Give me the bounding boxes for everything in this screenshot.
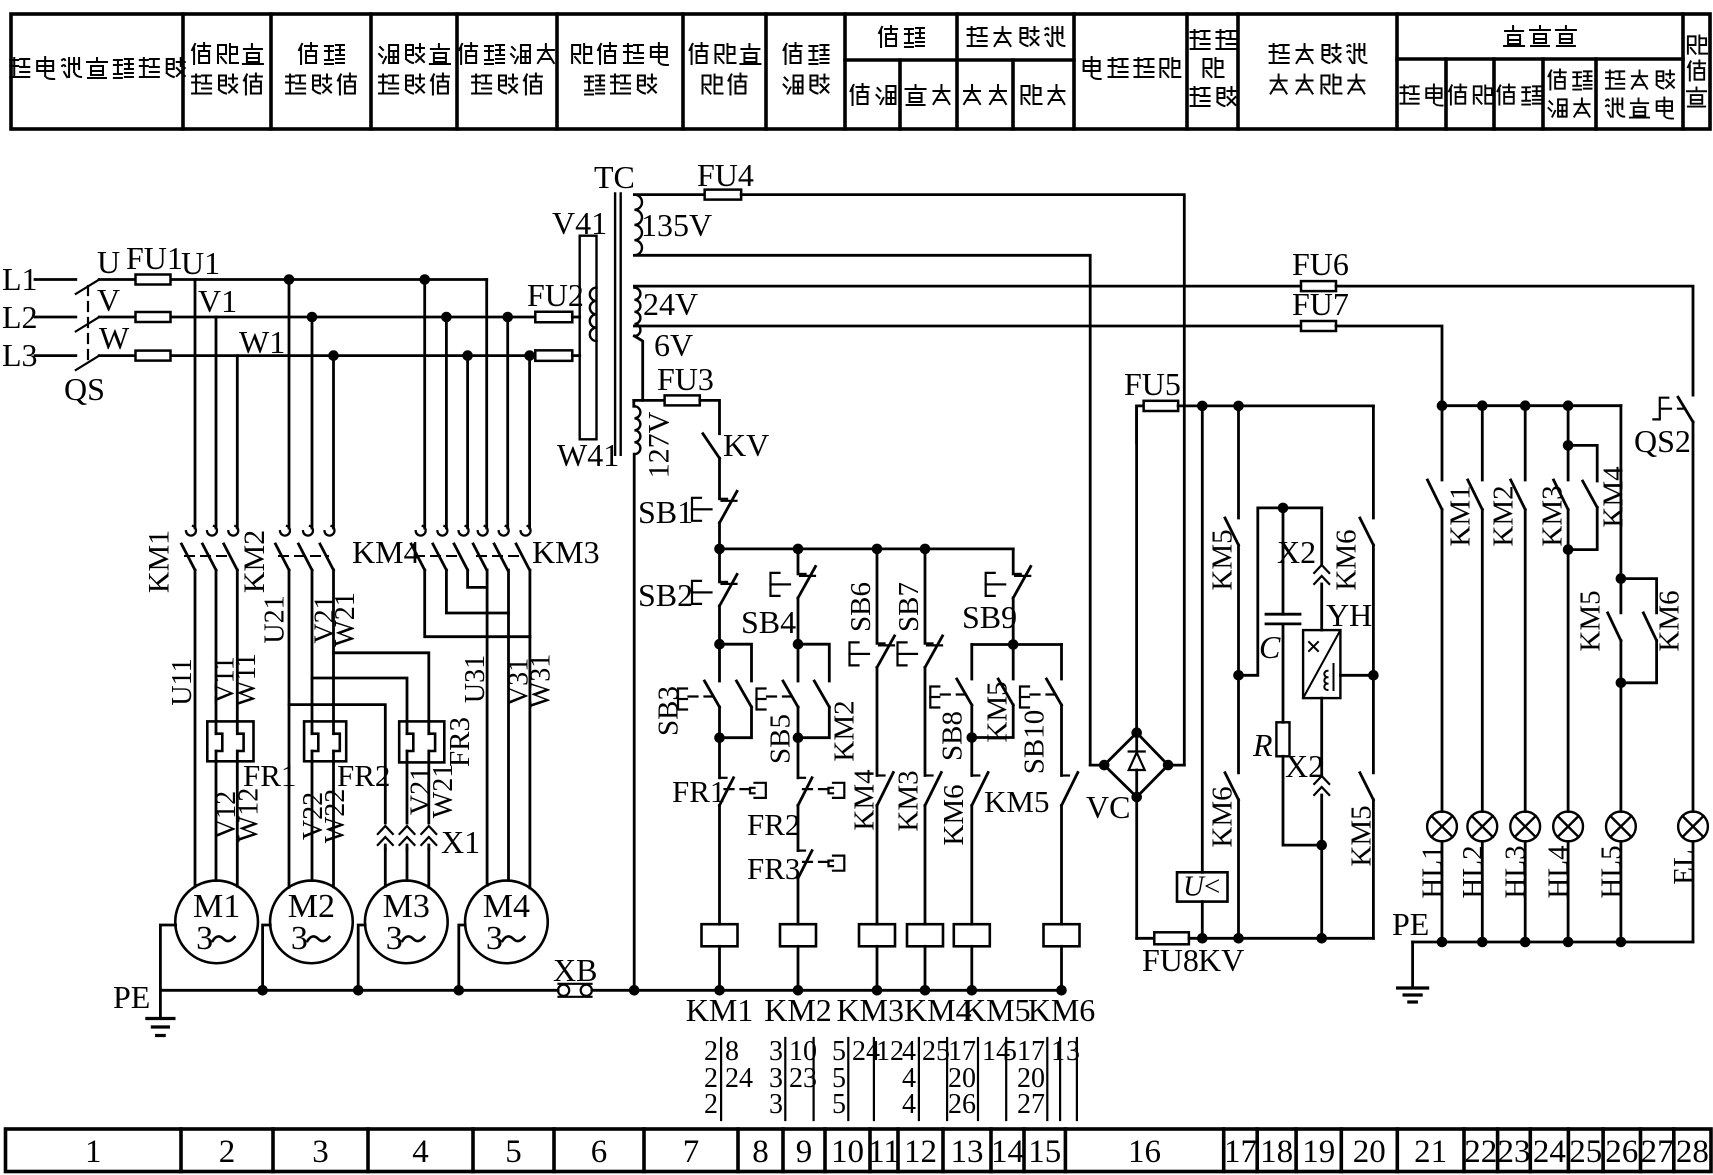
PE bonding M3 [358, 925, 365, 990]
svg-text:KV: KV [723, 427, 769, 463]
svg-text:KM5: KM5 [1346, 805, 1378, 866]
incoming supply line L3 [35, 354, 76, 357]
interlock contact KM3 [925, 774, 933, 776]
svg-text:KM2: KM2 [829, 700, 861, 761]
svg-text:KM3: KM3 [1537, 485, 1569, 546]
svg-text:KM3: KM3 [893, 770, 925, 831]
interlock contact KM6 [970, 738, 973, 776]
svg-text:U11: U11 [167, 658, 198, 705]
control feed rail [720, 548, 1014, 551]
chuck electromagnet YH [1303, 630, 1340, 698]
svg-text:TC: TC [594, 159, 635, 195]
contact KM6 to KV rail [1237, 675, 1240, 773]
wires FR2 to motor M2 [311, 751, 314, 881]
tap V-phase to FR3 [312, 678, 407, 734]
wire U branch KM2 [288, 280, 291, 529]
svg-text:FU1: FU1 [126, 240, 183, 276]
svg-text:SB3: SB3 [653, 686, 685, 736]
svg-text:FU6: FU6 [1292, 246, 1349, 282]
interlock contact KM4 [877, 774, 885, 776]
svg-text:EL: EL [1668, 849, 1700, 884]
svg-text:7: 7 [683, 1134, 700, 1170]
thermal relay FR3 [399, 721, 444, 762]
start button SB5 [797, 644, 800, 681]
coil KM1 [702, 924, 738, 946]
svg-text:KM3: KM3 [532, 534, 600, 570]
svg-text:V41: V41 [552, 205, 607, 241]
svg-text:KM4: KM4 [1598, 466, 1630, 528]
svg-text:W: W [99, 320, 130, 356]
svg-text:3: 3 [312, 1134, 329, 1170]
TC 24V/6V secondary winding [634, 288, 640, 336]
lamp feed rail [1442, 404, 1621, 407]
parallel contact KM4 [1568, 445, 1597, 481]
svg-text:U: U [97, 244, 120, 280]
fuse FU4 [705, 190, 742, 200]
bus L2 after switch [99, 316, 535, 319]
svg-text:SB6: SB6 [845, 582, 877, 632]
rectifier bridge VC [1104, 733, 1168, 797]
svg-text:SB10: SB10 [1019, 710, 1051, 774]
PE rail [160, 989, 558, 992]
svg-text:FU8: FU8 [1142, 942, 1199, 978]
wire bridge top to FU5 [1135, 406, 1138, 733]
svg-text:3: 3 [291, 920, 308, 957]
wire YH right terminal [1340, 674, 1373, 677]
svg-text:KM2: KM2 [238, 530, 271, 593]
svg-text:HL5: HL5 [1596, 845, 1628, 898]
svg-text:XB: XB [553, 952, 597, 988]
motor M3 [365, 881, 448, 964]
stop button SB9 [1012, 549, 1015, 574]
TC 127V control winding [634, 406, 640, 454]
charge button SB8 [957, 679, 972, 705]
svg-text:YH: YH [1326, 597, 1372, 633]
lamp branch KM3/KM4 / HL4 [1567, 406, 1570, 480]
lighting switch QS2 [1678, 397, 1693, 422]
svg-text:X2: X2 [1285, 748, 1324, 784]
svg-text:3: 3 [486, 920, 503, 957]
wire FU4 to rectifier right node [741, 195, 1184, 766]
svg-text:6V: 6V [654, 327, 693, 363]
svg-text:L3: L3 [2, 337, 38, 373]
wire V1 branch [215, 317, 218, 528]
svg-text:R: R [1252, 727, 1273, 763]
wires FR3 to connector X1 [406, 751, 409, 823]
PE bonding M4 [459, 925, 465, 990]
svg-text:V1: V1 [198, 283, 237, 319]
svg-text:HL3: HL3 [1500, 845, 1532, 898]
stop button SB1 [720, 498, 728, 500]
svg-text:9: 9 [796, 1134, 813, 1170]
svg-text:QS2: QS2 [1634, 423, 1691, 459]
bus L1 after switch [99, 278, 487, 281]
svg-text:24V: 24V [643, 286, 698, 322]
svg-text:KM6: KM6 [1207, 786, 1239, 847]
coil KM2 [780, 924, 816, 946]
svg-text:17: 17 [1224, 1134, 1257, 1170]
chuck branch: contact KM5 [1237, 406, 1240, 518]
svg-text:2: 2 [704, 1089, 718, 1120]
svg-text:W11: W11 [231, 653, 262, 706]
stop button SB2 [720, 581, 728, 583]
coil KM6 [1044, 924, 1080, 946]
svg-text:HL2: HL2 [1457, 845, 1489, 898]
svg-text:W1: W1 [239, 324, 285, 360]
svg-text:W21: W21 [330, 592, 361, 646]
svg-text:4: 4 [902, 1089, 916, 1120]
button SB7 [924, 549, 927, 644]
stop button SB4 [797, 549, 800, 574]
tap W-phase to FR3 [334, 653, 429, 734]
svg-text:W31: W31 [526, 654, 557, 708]
tap U-phase to X1 [289, 705, 385, 823]
svg-text:25: 25 [1569, 1134, 1602, 1170]
wires FR1 to motor M1 [215, 751, 218, 881]
svg-text:KM3: KM3 [836, 992, 904, 1028]
svg-text:21: 21 [1414, 1134, 1447, 1170]
wires X1 to motor M3 [384, 849, 387, 886]
wires & components group [35, 190, 1708, 1036]
svg-text:U31: U31 [460, 655, 491, 703]
self-hold contact KM5 [1012, 645, 1015, 680]
svg-text:14: 14 [991, 1134, 1024, 1170]
incoming supply line L2 [35, 316, 76, 319]
incoming supply line L1 [35, 278, 76, 281]
self-hold contact KM2 [798, 644, 829, 681]
node dots on buses [284, 274, 295, 285]
wire 127V top through FU3 [634, 399, 665, 402]
wire bridge right to FU4 rail [1168, 764, 1184, 767]
border frame & header table [11, 14, 1710, 129]
svg-text:13: 13 [951, 1134, 984, 1170]
self-hold contact KM1 [720, 644, 752, 681]
control common rail [592, 989, 1063, 992]
svg-text:12: 12 [876, 1036, 904, 1067]
svg-text:FU3: FU3 [657, 361, 714, 397]
svg-text:U<: U< [1183, 871, 1220, 903]
svg-text:KM1: KM1 [686, 992, 754, 1028]
svg-text:2: 2 [219, 1134, 236, 1170]
svg-text:SB8: SB8 [937, 711, 969, 761]
wire bridge left to 135V rail [1090, 764, 1104, 767]
lamp EL branch [1692, 422, 1695, 812]
thermal contact FR2 [797, 738, 800, 778]
svg-text:X1: X1 [441, 824, 480, 860]
svg-text:16: 16 [1128, 1134, 1161, 1170]
svg-text:C: C [1259, 629, 1281, 665]
svg-text:10: 10 [831, 1134, 864, 1170]
svg-text:KM4: KM4 [904, 992, 972, 1028]
svg-text:6: 6 [591, 1134, 608, 1170]
wires KM2 outputs with taps to coolant pump [288, 570, 291, 887]
svg-text:24: 24 [725, 1063, 753, 1094]
PE bonding M2 [263, 925, 271, 990]
wire U1 branch [194, 280, 197, 529]
svg-text:KM6: KM6 [938, 784, 970, 845]
KV coil rail with fuse FU8 [1135, 797, 1138, 938]
svg-text:U21: U21 [260, 595, 291, 643]
svg-text:FR3: FR3 [444, 717, 476, 767]
contactor KM3 main contacts [478, 526, 488, 536]
6V end wire to FU3 node [634, 336, 642, 400]
svg-text:SB7: SB7 [893, 582, 925, 632]
lamp branch KM5/KM6 / HL5 [1620, 406, 1623, 613]
header labels [10, 58, 29, 77]
svg-text:27: 27 [1017, 1089, 1045, 1120]
svg-text:26: 26 [1605, 1134, 1638, 1170]
svg-text:L1: L1 [2, 261, 38, 297]
svg-text:3: 3 [386, 920, 403, 957]
svg-text:KM6: KM6 [1654, 590, 1686, 651]
wire W branch KM2 [332, 356, 335, 528]
svg-text:W21: W21 [428, 764, 459, 818]
phase-swap crossover wiring [425, 570, 530, 637]
svg-text:18: 18 [1260, 1134, 1293, 1170]
resistor R [1282, 624, 1285, 722]
ground symbol PE [159, 990, 162, 1018]
coil KM4 [907, 924, 943, 946]
svg-text:W41: W41 [557, 437, 619, 473]
connector X2 upper [1320, 508, 1323, 565]
svg-text:3: 3 [769, 1089, 783, 1120]
terminal numbers under coils [704, 1036, 1065, 1120]
fuse FU6 [1301, 281, 1336, 291]
svg-text:U1: U1 [181, 245, 220, 281]
svg-text:25: 25 [922, 1036, 950, 1067]
parallel contact KM6 [1621, 579, 1657, 613]
svg-text:11: 11 [868, 1134, 900, 1170]
svg-text:KM1: KM1 [1445, 485, 1477, 546]
svg-text:5: 5 [832, 1089, 846, 1120]
fuse FU5 [1137, 406, 1144, 443]
svg-text:SB1: SB1 [638, 494, 693, 530]
svg-text:FU4: FU4 [697, 157, 754, 193]
svg-text:KM5: KM5 [982, 681, 1014, 742]
svg-text:KM2: KM2 [764, 992, 832, 1028]
svg-text:127V: 127V [643, 411, 676, 478]
svg-text:3: 3 [1066, 1036, 1080, 1067]
motor M1 [175, 881, 258, 964]
coil KM5 [954, 924, 990, 946]
svg-text:SB2: SB2 [638, 577, 693, 613]
TC primary winding V41-W41 [580, 236, 597, 440]
24V top terminal to FU6 and QS2 [634, 285, 1301, 288]
fuse FU1 (three fuses) [136, 275, 171, 285]
motor M4 [465, 881, 548, 964]
contactor KM2 main contacts [280, 526, 290, 536]
svg-text:KM5: KM5 [1575, 590, 1607, 651]
svg-text:QS: QS [64, 371, 105, 407]
main switch QS [76, 280, 99, 294]
svg-text:135V: 135V [641, 207, 712, 243]
svg-text:8: 8 [752, 1134, 769, 1170]
svg-text:26: 26 [948, 1089, 976, 1120]
svg-text:FU7: FU7 [1292, 286, 1349, 322]
svg-text:HL1: HL1 [1417, 845, 1449, 898]
svg-text:FU2: FU2 [527, 277, 584, 313]
svg-text:12: 12 [904, 1134, 937, 1170]
svg-text:KM5: KM5 [963, 992, 1031, 1028]
svg-text:V: V [97, 282, 120, 318]
thermal contact FR3 [797, 805, 800, 850]
fuse FU7 [1301, 321, 1336, 331]
connector X1 (three poles) [378, 826, 393, 834]
svg-text:KM6: KM6 [1331, 529, 1363, 590]
motor M2 [270, 881, 353, 964]
svg-text:KM5: KM5 [984, 784, 1049, 819]
svg-text:W12: W12 [234, 788, 265, 842]
wire V branch KM2 [311, 317, 314, 528]
fuse FU3 [665, 395, 700, 405]
svg-text:20: 20 [1353, 1134, 1386, 1170]
contactor KM1 main contacts [186, 526, 196, 536]
wire V31 [507, 570, 510, 613]
svg-text:4: 4 [412, 1134, 429, 1170]
coil KM3 [859, 924, 895, 946]
svg-text:FR1: FR1 [243, 758, 296, 793]
capacitor frame wire [1239, 508, 1322, 675]
svg-text:3: 3 [196, 920, 213, 957]
bus L3 after switch [99, 354, 535, 357]
svg-text:FR2: FR2 [747, 807, 800, 842]
svg-text:28: 28 [1676, 1134, 1709, 1170]
bottom column-number table [6, 1129, 1712, 1172]
svg-text:SB5: SB5 [765, 714, 797, 764]
wires to KM4 contacts [423, 280, 426, 529]
svg-text:FR3: FR3 [747, 851, 800, 886]
svg-text:15: 15 [1028, 1134, 1061, 1170]
lamp branch KM1 / HL1 [1441, 406, 1444, 480]
svg-text:W22: W22 [320, 789, 351, 843]
svg-text:L2: L2 [2, 299, 38, 335]
undervoltage relay KV coil (U<) [1177, 872, 1228, 901]
svg-text:FR2: FR2 [337, 758, 390, 793]
capacitor C [1282, 508, 1285, 614]
lamp branch KM3 / HL3 [1524, 406, 1527, 480]
svg-text:KM1: KM1 [143, 530, 176, 593]
svg-text:SB9: SB9 [962, 599, 1017, 635]
motor frame bonding M1 [160, 925, 175, 990]
svg-text:5: 5 [505, 1134, 522, 1170]
svg-text:KM2: KM2 [1488, 485, 1520, 546]
removable link XB [558, 985, 569, 996]
svg-text:KM5: KM5 [1207, 529, 1239, 590]
svg-text:1: 1 [1051, 1036, 1065, 1067]
TC 135V secondary winding [634, 195, 642, 256]
24V tap terminal to FU7 and lamps [634, 325, 1301, 328]
wire to undervoltage relay [1201, 406, 1204, 872]
svg-text:KM6: KM6 [1028, 992, 1096, 1028]
left control rail from 127V bottom [633, 454, 636, 990]
svg-text:1: 1 [85, 1134, 102, 1170]
svg-text:PE: PE [113, 979, 150, 1015]
wire W1 branch [236, 356, 239, 528]
svg-text:FR1: FR1 [672, 774, 725, 809]
lamp branch KM2 / HL2 [1481, 406, 1484, 480]
svg-text:23: 23 [1497, 1134, 1530, 1170]
start button SB3 [718, 644, 721, 681]
svg-text:PE: PE [1392, 906, 1429, 942]
svg-text:22: 22 [1464, 1134, 1497, 1170]
svg-text:24: 24 [1533, 1134, 1566, 1170]
svg-text:19: 19 [1302, 1134, 1335, 1170]
branch rail for chuck buttons [972, 643, 1062, 646]
thermal relay FR2 [304, 721, 346, 761]
thermal contact FR1 [720, 777, 727, 779]
ground symbol lamp PE [1411, 942, 1414, 988]
contact KM6 right branch [1372, 406, 1375, 518]
contact KM5 right branch [1372, 675, 1375, 773]
svg-text:KM4: KM4 [352, 534, 420, 570]
contactor KM4 main contacts [416, 526, 426, 536]
DC positive rail [1178, 404, 1373, 407]
connector X2 lower [1320, 698, 1323, 776]
svg-text:27: 27 [1641, 1134, 1674, 1170]
button SB6 [876, 549, 879, 644]
transformer TC core [614, 194, 616, 455]
135V top terminal to FU4 [634, 193, 704, 196]
svg-text:KV: KV [1198, 942, 1244, 978]
wire 135V bottom to rectifier left node [634, 255, 1090, 765]
svg-text:SB4: SB4 [741, 604, 796, 640]
wires KM1 to FR1 [194, 570, 197, 887]
voltage relay contact KV [703, 434, 720, 459]
svg-text:KM4: KM4 [849, 769, 881, 831]
wire W31 [529, 570, 532, 637]
interlock contact KM5 [1062, 774, 1070, 776]
thermal relay FR1 [207, 721, 253, 761]
svg-text:HL4: HL4 [1543, 845, 1575, 899]
lamp PE rail [1413, 941, 1693, 944]
discharge button SB10 [1060, 645, 1063, 680]
wire U31 [486, 570, 489, 587]
svg-text:VC: VC [1086, 789, 1130, 825]
svg-text:X2: X2 [1277, 534, 1316, 570]
fuse FU2 (two fuses) [535, 312, 572, 323]
wires to KM3 contacts [485, 280, 488, 529]
svg-text:FU5: FU5 [1124, 366, 1181, 402]
